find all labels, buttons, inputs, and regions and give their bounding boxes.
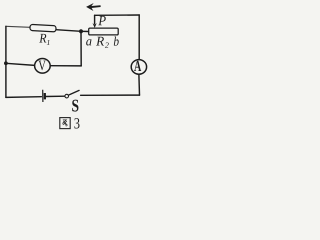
wire: bottom between battery and switch xyxy=(46,95,65,97)
label a xyxy=(86,39,91,45)
voltmeter V xyxy=(35,59,51,74)
wire: left vertical rail xyxy=(5,26,7,97)
wire: node a to rheostat terminal a xyxy=(81,30,89,32)
rheostat R2 xyxy=(89,28,119,35)
label S xyxy=(72,100,78,112)
battery short thick plate xyxy=(44,93,46,99)
battery long plate xyxy=(42,90,44,102)
label R2 xyxy=(96,37,104,46)
caption numeral 3 xyxy=(74,118,79,128)
label R1 subscript 1 xyxy=(47,40,50,45)
label R2 subscript 2 xyxy=(105,43,109,48)
label R1 xyxy=(39,34,46,43)
ammeter A xyxy=(131,60,146,75)
wire: top-left from left rail to R1 xyxy=(6,26,30,27)
node dot on left rail xyxy=(4,61,8,65)
wire: bottom left of battery xyxy=(6,96,42,99)
switch lever xyxy=(69,90,80,95)
label P xyxy=(98,16,106,25)
wire: right rail above ammeter xyxy=(138,15,140,59)
direction arrow pointing left xyxy=(86,3,101,11)
node dot at rheostat terminal a xyxy=(79,29,83,33)
slider arrowhead xyxy=(93,23,97,28)
wire: voltmeter branch right xyxy=(50,65,81,67)
wire: slider stem xyxy=(94,15,96,23)
wire: R1 right terminal to node a xyxy=(56,30,81,32)
wire: right rail below ammeter xyxy=(138,75,141,96)
wire: vertical from node a down to voltmeter branch xyxy=(80,31,82,66)
switch pivot xyxy=(65,94,69,98)
caption hanzi TU (figure) xyxy=(60,118,70,129)
resistor R1 xyxy=(30,24,56,32)
wire: bottom right of switch to right rail xyxy=(81,94,140,96)
wire: slider tap to top-right corner xyxy=(95,14,140,16)
wire: voltmeter branch left xyxy=(6,63,35,65)
label b xyxy=(114,36,119,45)
